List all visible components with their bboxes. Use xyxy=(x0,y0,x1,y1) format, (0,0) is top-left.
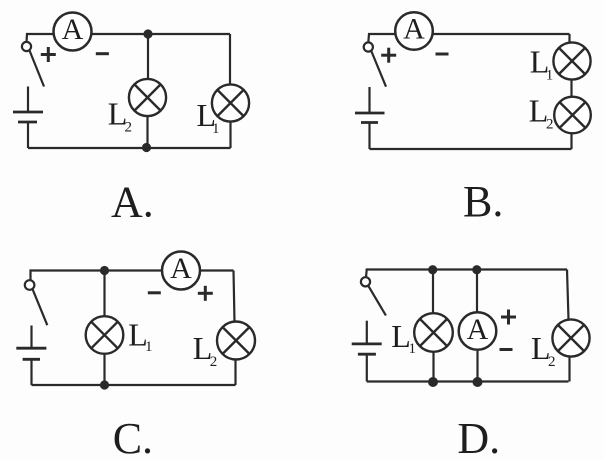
svg-text:A: A xyxy=(62,13,84,46)
svg-text:2: 2 xyxy=(210,354,218,370)
svg-text:B.: B. xyxy=(463,177,503,226)
svg-text:1: 1 xyxy=(212,121,220,137)
svg-text:2: 2 xyxy=(125,120,133,136)
svg-text:A: A xyxy=(467,313,489,346)
svg-text:D.: D. xyxy=(457,414,500,459)
svg-text:A.: A. xyxy=(111,178,154,227)
svg-text:2: 2 xyxy=(548,354,556,370)
svg-text:A: A xyxy=(170,252,192,285)
svg-text:A: A xyxy=(403,13,425,46)
svg-text:2: 2 xyxy=(546,117,554,133)
svg-text:1: 1 xyxy=(409,341,417,357)
svg-text:1: 1 xyxy=(546,68,554,84)
svg-text:C.: C. xyxy=(113,414,153,459)
svg-text:1: 1 xyxy=(145,339,153,355)
